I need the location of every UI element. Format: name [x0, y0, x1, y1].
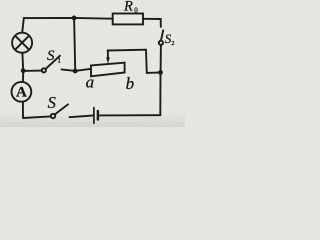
- wire left node to switch S1: [23, 70, 42, 72]
- svg-text:2: 2: [171, 40, 174, 47]
- lamp cross stroke 2: [16, 36, 29, 49]
- switch S1 contact: [42, 68, 46, 72]
- resistor R0: [113, 14, 143, 25]
- node junction right: [158, 70, 163, 75]
- svg-text:a: a: [86, 73, 95, 92]
- wire node to lamp: [21, 53, 24, 69]
- node junction top: [72, 16, 77, 21]
- svg-text:S: S: [47, 48, 55, 64]
- wire top horizontal: [24, 17, 113, 20]
- switch S contact: [51, 114, 55, 118]
- switch S2 contact: [159, 41, 163, 45]
- node junction left: [21, 68, 26, 73]
- rheostat box: [91, 63, 125, 77]
- wire bottom left segment: [23, 116, 51, 118]
- wire ammeter to left node: [22, 73, 24, 82]
- rheostat wiper arrow shaft: [107, 51, 109, 59]
- battery short plate: [97, 111, 99, 120]
- wire middle vertical: [74, 18, 75, 69]
- svg-text:b: b: [126, 74, 135, 93]
- wire bottom right segment: [99, 114, 160, 116]
- rheostat wiper arrowhead: [106, 57, 110, 63]
- wire S2 down to right node: [160, 45, 162, 70]
- svg-text:0: 0: [134, 7, 138, 15]
- wire right vertical lower: [159, 75, 161, 116]
- svg-text:S: S: [48, 93, 56, 112]
- wire battery to switch S: [70, 116, 94, 118]
- lamp circle: [12, 33, 32, 53]
- wire S1 to middle node to rheostat: [62, 69, 92, 71]
- battery long plate: [93, 108, 95, 124]
- switch S blade: [55, 104, 68, 114]
- switch S2 blade: [161, 30, 163, 40]
- wire lamp to top-left corner: [22, 18, 24, 32]
- wire wiper to right node: [108, 50, 159, 73]
- svg-text:1: 1: [57, 55, 61, 64]
- lamp cross stroke 1: [16, 36, 29, 49]
- svg-text:A: A: [16, 84, 27, 100]
- paper background: [0, 0, 185, 127]
- wire left vertical below ammeter: [22, 102, 24, 118]
- svg-text:R: R: [123, 0, 133, 15]
- switch S1 blade: [46, 56, 61, 69]
- node junction middle: [73, 69, 78, 74]
- ammeter: [12, 82, 32, 102]
- wire resistor to top-right corner: [143, 19, 161, 27]
